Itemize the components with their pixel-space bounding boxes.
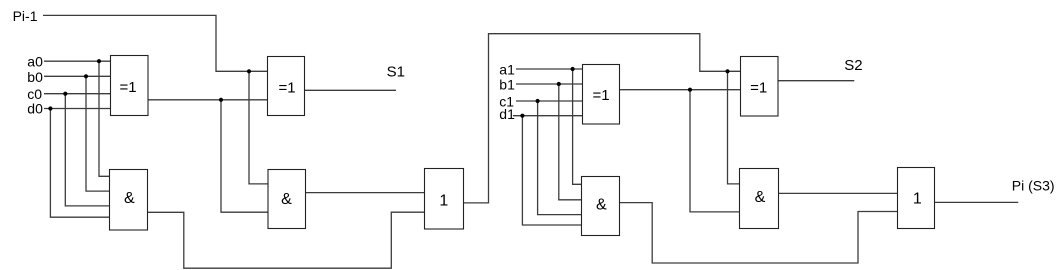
svg-text:a0: a0 [27,53,43,69]
svg-text:d1: d1 [499,106,515,122]
svg-text:a1: a1 [499,61,515,77]
svg-text:1: 1 [913,191,922,208]
svg-text:d0: d0 [27,100,43,116]
svg-text:=1: =1 [119,79,136,96]
svg-text:&: & [124,190,135,207]
svg-text:=1: =1 [278,79,295,96]
svg-text:S2: S2 [844,57,862,74]
svg-text:&: & [281,191,292,208]
svg-text:&: & [596,197,607,214]
svg-text:=1: =1 [592,87,609,104]
svg-text:&: & [755,189,766,206]
svg-text:b1: b1 [499,76,515,92]
svg-text:=1: =1 [750,80,767,97]
svg-text:Pi (S3): Pi (S3) [1012,178,1055,194]
svg-text:S1: S1 [387,64,405,81]
svg-text:b0: b0 [27,69,43,85]
svg-text:Pi-1: Pi-1 [13,8,38,24]
svg-text:1: 1 [439,192,448,209]
